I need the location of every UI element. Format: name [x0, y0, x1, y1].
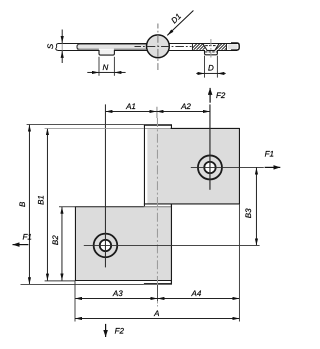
front view: hinge barrel strip [144, 125, 172, 285]
front view: upper leaf plate [144, 128, 240, 204]
svg-text:F1: F1 [265, 150, 274, 159]
dimension B1 [36, 128, 143, 281]
top view: right end cap [231, 43, 239, 50]
top view: knuckle protrusion below bar [99, 50, 114, 55]
label D1 with leader [167, 11, 193, 36]
svg-text:F2: F2 [216, 91, 226, 100]
svg-text:S: S [46, 43, 55, 49]
top view: bar outline bottom line segments [58, 50, 237, 52]
front view: lower hole crosshair [84, 104, 260, 267]
dimension D [196, 56, 225, 78]
front view: hinge axis centerline [156, 107, 159, 307]
svg-text:B1: B1 [36, 195, 45, 205]
dimension B2 [51, 207, 75, 281]
top view: section hatching right of countersink [213, 42, 236, 53]
top view: break squiggle at left end [56, 44, 58, 51]
force F1 arrow left [13, 233, 32, 245]
dimension B [18, 124, 144, 284]
force F1 arrow right [265, 150, 281, 168]
dimension S [46, 30, 62, 64]
top view: rear leaf gray segment right [228, 44, 238, 49]
svg-text:F2: F2 [115, 326, 125, 335]
svg-text:A: A [153, 309, 159, 318]
dimension N [87, 57, 125, 76]
svg-text:B3: B3 [244, 208, 253, 218]
svg-text:A1: A1 [125, 102, 136, 111]
top view: weld boss below hole [205, 46, 218, 55]
dimension A1 A2 [105, 102, 210, 111]
svg-text:D: D [208, 64, 214, 73]
svg-text:A2: A2 [180, 102, 191, 111]
dimension A [75, 309, 239, 318]
top view: hatch zone left boundary [191, 43, 193, 50]
front view: lower leaf plate [75, 204, 172, 284]
force F2 arrow (top view) [210, 88, 226, 103]
dimension A3 A4 [75, 204, 239, 321]
svg-text:B: B [18, 201, 27, 207]
svg-text:N: N [103, 63, 109, 72]
svg-text:F1: F1 [23, 233, 32, 242]
front view: faint line under barrel top tab [0, 0, 1, 1]
top view: section hatching left of countersink [188, 42, 211, 53]
top view: vertical centerline of barrel [157, 24, 159, 71]
front view: upper hole crosshair [191, 104, 264, 189]
top view: hinge barrel circle D1 [147, 35, 170, 58]
top view: bar outline top line [58, 43, 237, 45]
force F2 arrow bottom [106, 324, 125, 337]
svg-text:A3: A3 [112, 289, 123, 298]
top view: leaf bar white body [58, 43, 239, 51]
top view: vertical centerline of hole D [210, 39, 212, 58]
top view: rear leaf gray segment left [77, 44, 152, 49]
svg-text:A4: A4 [191, 289, 202, 298]
top view: hatch zone right boundary [225, 43, 227, 50]
top view: countersink slants [203, 44, 219, 50]
dimension B3 [244, 168, 257, 246]
front view: upper hole circles [198, 155, 222, 179]
front view: lower hole circles [94, 234, 118, 258]
svg-text:B2: B2 [51, 235, 60, 245]
top view: horizontal centerline [135, 45, 192, 47]
